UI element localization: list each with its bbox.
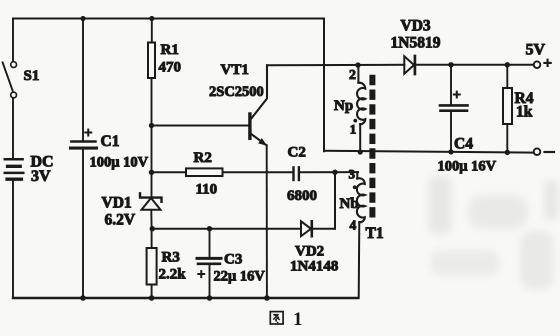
wire base line xyxy=(152,125,249,127)
capacitor C3 22u 16V xyxy=(197,229,265,298)
diode VD3 1N5819 xyxy=(391,18,534,75)
svg-text:+: + xyxy=(453,88,462,104)
switch S1 xyxy=(3,19,40,98)
node C4 bottom xyxy=(448,149,453,154)
node Nb phase dot xyxy=(353,185,357,189)
svg-text:VD3: VD3 xyxy=(401,18,431,35)
svg-text:3V: 3V xyxy=(31,168,51,185)
svg-text:1N4148: 1N4148 xyxy=(290,259,338,275)
svg-text:470: 470 xyxy=(159,60,182,76)
svg-text:C3: C3 xyxy=(224,252,242,268)
svg-text:+: + xyxy=(197,267,206,283)
node base junction xyxy=(149,123,154,128)
svg-text:+: + xyxy=(84,126,93,142)
node C4 top xyxy=(448,62,453,67)
diode VD2 1N4148 xyxy=(290,172,338,274)
node C2 / VD2 riser xyxy=(332,170,337,175)
transistor VT1 2SC2500 xyxy=(209,62,267,146)
capacitor C4 100u 16V xyxy=(438,65,497,175)
svg-text:110: 110 xyxy=(196,182,218,198)
node C3 top xyxy=(207,226,212,231)
resistor R3 2.2k xyxy=(147,229,187,298)
caption figure 1 xyxy=(270,309,302,330)
wire emitter to bottom rail xyxy=(266,145,268,298)
resistor R2 110 xyxy=(152,150,293,198)
svg-text:2: 2 xyxy=(349,68,356,83)
node R4 top xyxy=(505,62,510,67)
svg-text:R3: R3 xyxy=(162,250,180,266)
svg-text:2SC2500: 2SC2500 xyxy=(209,84,264,100)
svg-text:C2: C2 xyxy=(288,145,306,161)
transformer winding Nb xyxy=(340,167,384,299)
node Np phase dot xyxy=(353,119,357,123)
svg-text:R2: R2 xyxy=(194,150,212,166)
terminal 5V plus xyxy=(526,42,553,73)
svg-text:C1: C1 xyxy=(101,133,120,150)
resistor R4 1k xyxy=(503,65,534,152)
svg-text:Np: Np xyxy=(334,98,353,114)
resistor R1 470 xyxy=(148,19,181,126)
node bottom rail C3 xyxy=(207,295,213,301)
svg-text:100μ 10V: 100μ 10V xyxy=(90,155,149,171)
wire battery to bottom rail xyxy=(12,181,14,298)
capacitor C1 xyxy=(71,19,149,299)
wire bottom rail xyxy=(13,297,358,299)
svg-text:Nb: Nb xyxy=(340,196,359,212)
terminal 0V minus xyxy=(534,148,554,155)
svg-text:T1: T1 xyxy=(366,225,384,242)
svg-text:1k: 1k xyxy=(516,104,533,121)
svg-text:22μ 16V: 22μ 16V xyxy=(214,269,266,285)
svg-text:3: 3 xyxy=(349,167,356,182)
node R4 bottom xyxy=(505,150,510,155)
svg-text:VD2: VD2 xyxy=(295,244,324,260)
transformer winding Np xyxy=(334,65,365,152)
svg-text:S1: S1 xyxy=(24,68,40,84)
wire switch to battery xyxy=(12,98,14,158)
node pin1 line xyxy=(358,149,363,154)
svg-text:VT1: VT1 xyxy=(221,62,249,78)
node VD1 / R3 xyxy=(150,226,155,231)
svg-text:6.2V: 6.2V xyxy=(105,212,136,229)
node pin2 xyxy=(355,62,360,67)
wire collector node line y=65 xyxy=(267,64,404,67)
node bottom rail C1 xyxy=(80,295,86,301)
svg-text:1: 1 xyxy=(293,309,303,330)
node R2 junction xyxy=(149,170,154,175)
wire battery plus drop x=324 xyxy=(323,19,325,152)
node bottom rail R3 xyxy=(149,295,155,301)
zener diode VD1 6.2V xyxy=(102,126,162,229)
svg-text:6800: 6800 xyxy=(287,188,317,204)
svg-text:1: 1 xyxy=(350,122,357,137)
battery DC 3V xyxy=(5,154,54,185)
wire top rail xyxy=(13,18,324,20)
svg-text:VD1: VD1 xyxy=(102,195,132,212)
node bottom rail emitter xyxy=(264,295,270,301)
svg-text:100μ 16V: 100μ 16V xyxy=(438,159,497,175)
node top rail / C1 xyxy=(80,16,85,21)
node top rail / R1 xyxy=(149,16,154,21)
svg-text:C4: C4 xyxy=(454,136,473,153)
wire VD2 line xyxy=(152,228,301,230)
transformer T1 core xyxy=(369,75,375,218)
svg-text:2.2k: 2.2k xyxy=(159,267,187,283)
svg-text:R1: R1 xyxy=(161,42,179,58)
svg-text:+: + xyxy=(543,55,552,72)
svg-text:4: 4 xyxy=(350,218,357,233)
svg-text:1N5819: 1N5819 xyxy=(391,35,441,52)
wire output bottom line y=151 xyxy=(324,151,534,153)
capacitor C2 6800 xyxy=(287,145,358,205)
